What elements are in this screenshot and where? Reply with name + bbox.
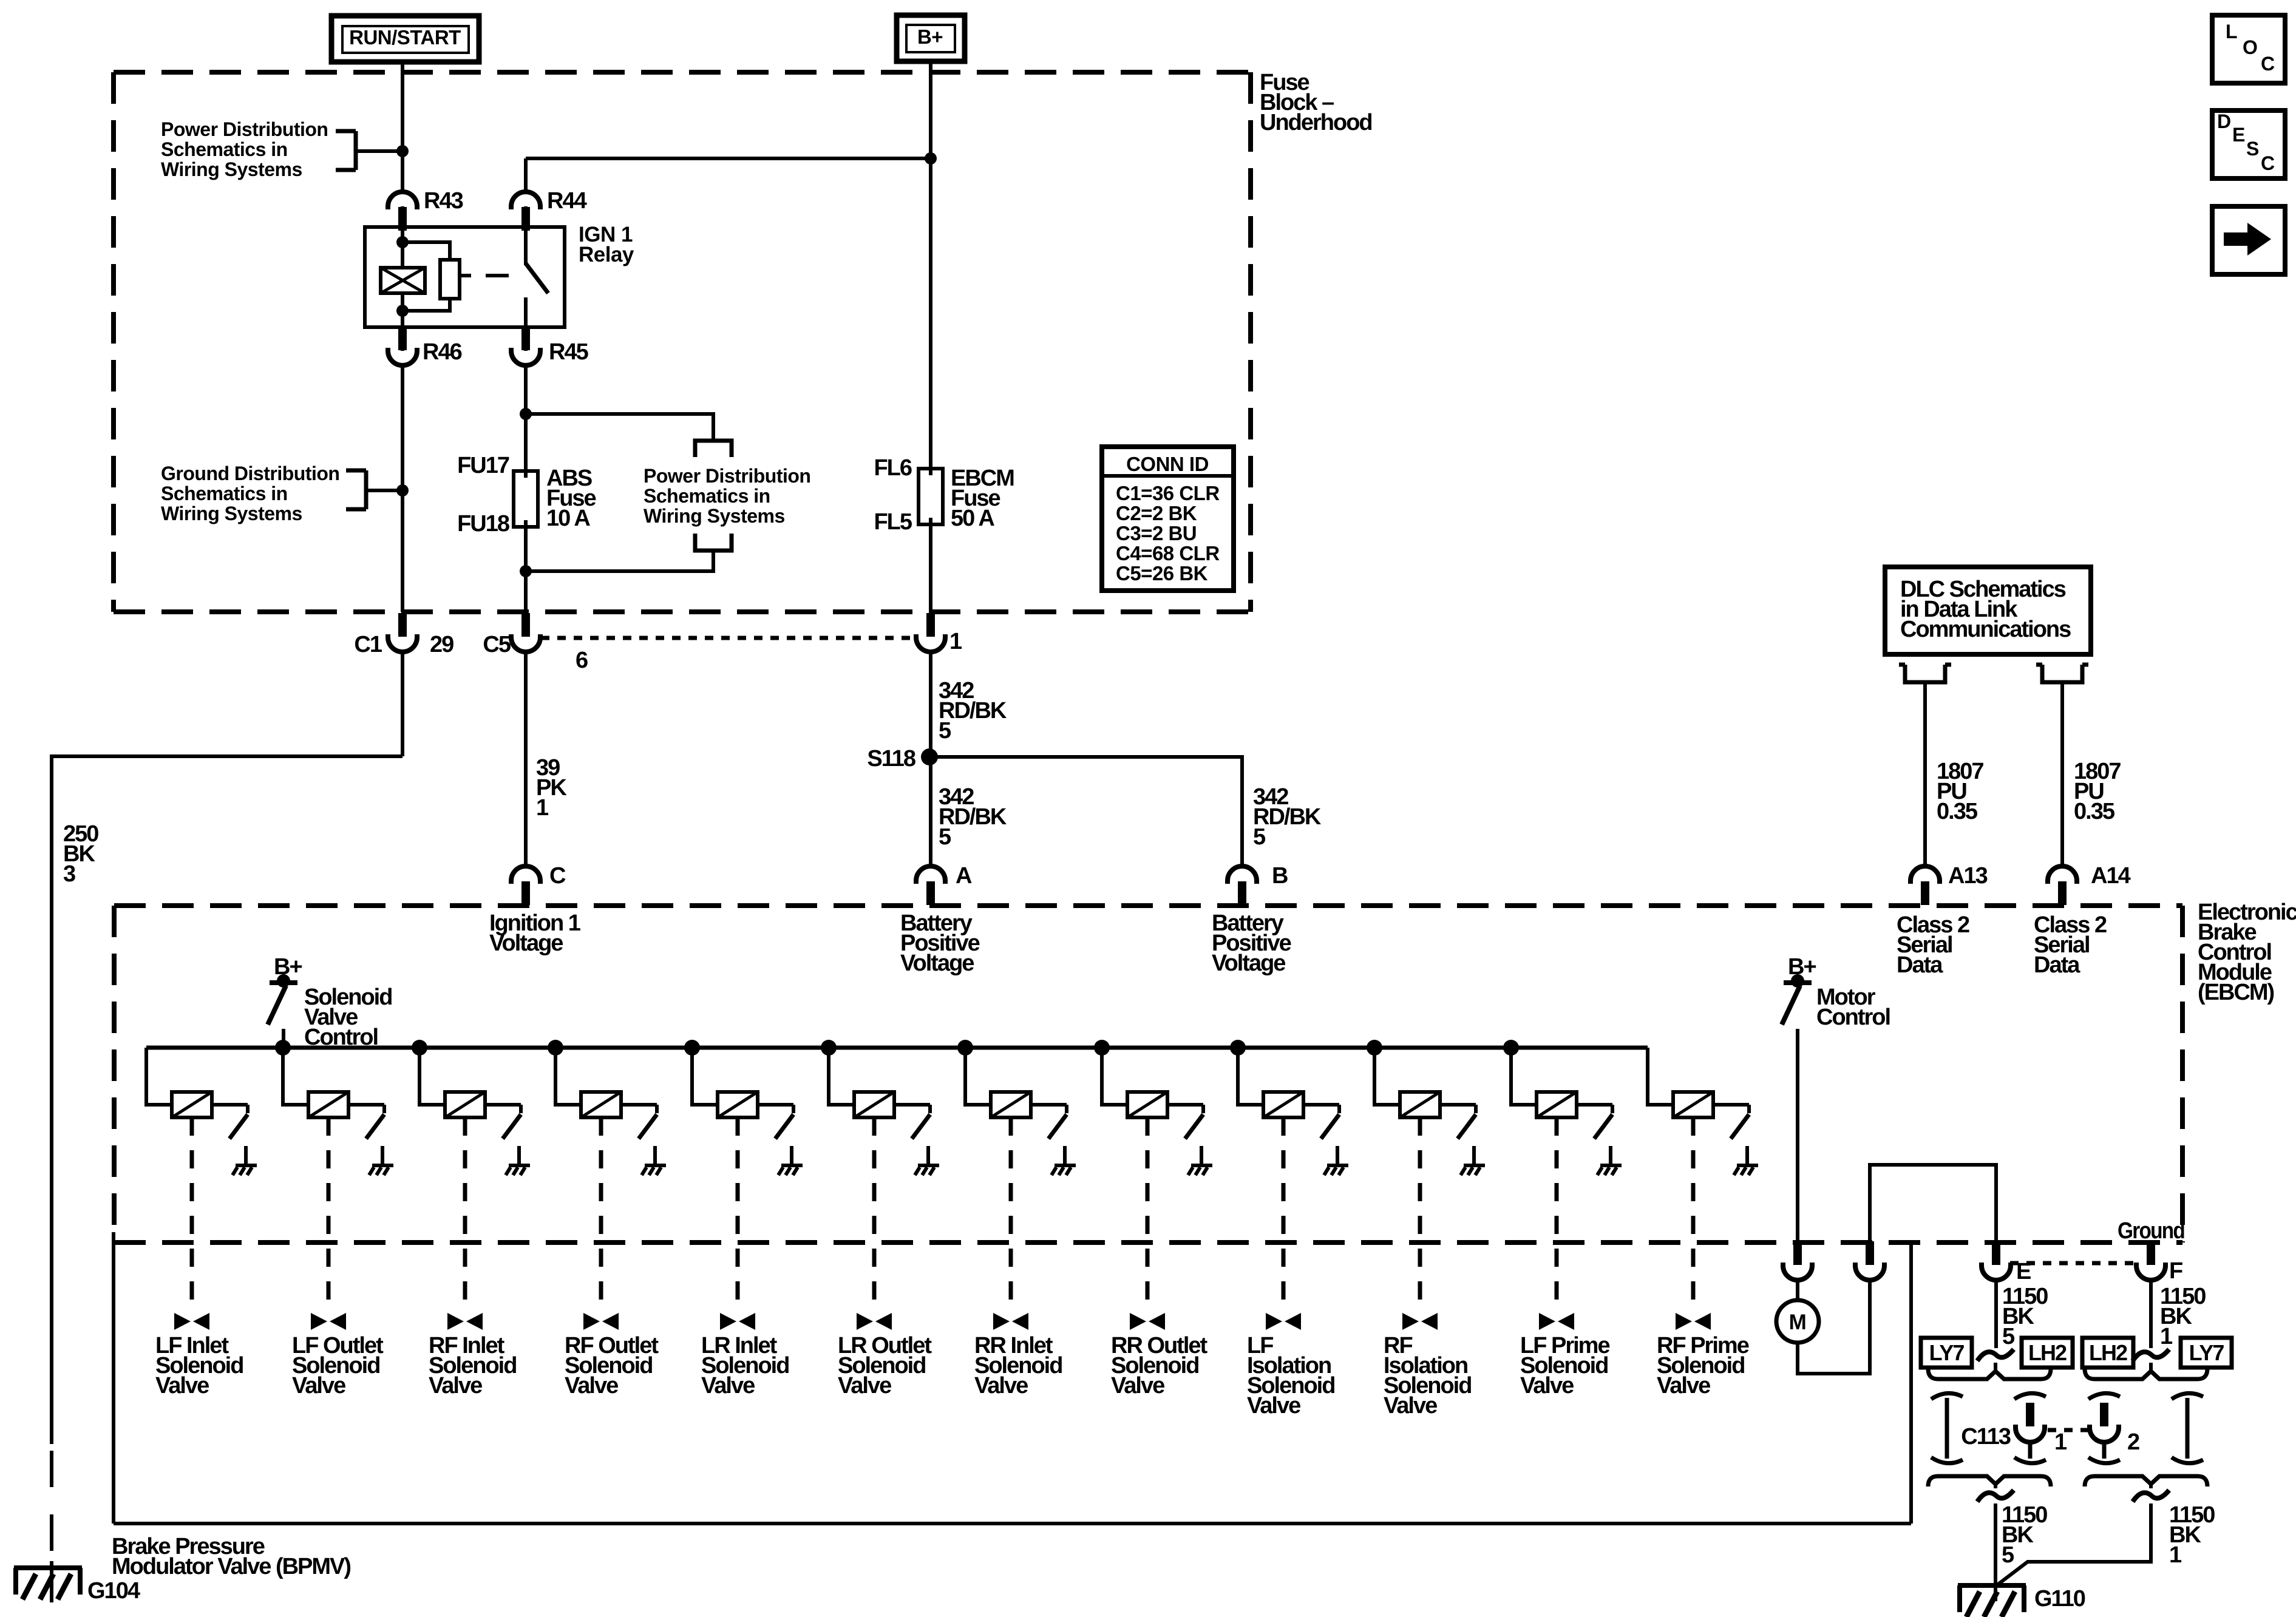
svg-text:RUN/START: RUN/START [349,26,461,49]
svg-text:R43: R43 [424,188,463,214]
svg-text:Ground Distribution: Ground Distribution [161,463,339,484]
svg-text:50 A: 50 A [951,506,994,531]
svg-text:C2=2 BK: C2=2 BK [1116,502,1197,524]
svg-text:Valve: Valve [292,1373,345,1398]
svg-text:C: C [2261,152,2275,174]
svg-text:Ground: Ground [2118,1218,2184,1244]
svg-text:Voltage: Voltage [1212,951,1285,976]
svg-text:Valve: Valve [155,1373,209,1398]
svg-text:Valve: Valve [838,1373,891,1398]
svg-text:Valve: Valve [974,1373,1028,1398]
svg-text:A14: A14 [2091,863,2131,889]
svg-text:Schematics in: Schematics in [161,483,288,504]
svg-text:C1: C1 [354,632,382,657]
svg-text:G104: G104 [87,1578,140,1604]
svg-text:Valve: Valve [1657,1373,1710,1398]
svg-text:C4=68 CLR: C4=68 CLR [1116,542,1220,564]
svg-text:A: A [956,863,972,889]
svg-text:L: L [2226,21,2237,42]
svg-text:R45: R45 [549,339,589,365]
svg-text:2: 2 [2127,1429,2139,1455]
svg-text:Wiring Systems: Wiring Systems [161,158,302,180]
svg-text:Data: Data [1897,952,1943,978]
svg-text:5: 5 [1253,824,1266,850]
svg-text:6: 6 [576,648,588,673]
svg-text:LY7: LY7 [1929,1340,1965,1365]
svg-text:C5=26 BK: C5=26 BK [1116,562,1208,585]
svg-text:5: 5 [939,718,951,744]
svg-text:Voltage: Voltage [489,931,563,956]
svg-text:C1=36 CLR: C1=36 CLR [1116,482,1220,504]
svg-text:Schematics in: Schematics in [644,485,770,507]
svg-text:M: M [1789,1310,1807,1334]
svg-text:Communications: Communications [1900,617,2071,642]
svg-text:Power Distribution: Power Distribution [161,118,328,140]
svg-text:5: 5 [939,824,951,850]
svg-text:O: O [2243,36,2257,58]
svg-text:Voltage: Voltage [900,951,974,976]
svg-text:5: 5 [2002,1324,2015,1349]
svg-text:Data: Data [2034,952,2080,978]
svg-text:FL6: FL6 [874,455,911,481]
svg-text:Valve: Valve [1520,1373,1574,1398]
svg-text:R44: R44 [547,188,587,214]
svg-text:Power Distribution: Power Distribution [644,465,810,487]
svg-text:C: C [549,863,566,889]
svg-text:Control: Control [1816,1005,1890,1030]
svg-text:3: 3 [63,861,75,887]
svg-text:(EBCM): (EBCM) [2198,980,2274,1005]
svg-text:E: E [2232,124,2245,146]
svg-text:C3=2 BU: C3=2 BU [1116,522,1197,544]
svg-text:CONN ID: CONN ID [1126,453,1209,475]
svg-text:S: S [2246,138,2259,160]
svg-text:D: D [2217,110,2231,132]
svg-text:Valve: Valve [1111,1373,1164,1398]
svg-text:Modulator Valve (BPMV): Modulator Valve (BPMV) [112,1554,350,1579]
svg-text:B+: B+ [1788,954,1816,980]
svg-text:C5: C5 [483,632,511,657]
svg-text:FU18: FU18 [457,511,509,537]
svg-text:F: F [2169,1258,2182,1284]
svg-text:C: C [2261,53,2275,75]
svg-text:Valve: Valve [1247,1393,1300,1419]
svg-text:Valve: Valve [429,1373,482,1398]
svg-text:5: 5 [2002,1542,2014,1568]
svg-text:1: 1 [2054,1429,2067,1455]
svg-text:C113: C113 [1961,1424,2011,1449]
svg-text:B+: B+ [917,25,943,48]
svg-text:FL5: FL5 [874,509,912,535]
svg-text:B+: B+ [274,954,302,980]
svg-text:0.35: 0.35 [1937,799,1978,824]
svg-text:Wiring Systems: Wiring Systems [161,503,302,524]
svg-text:Valve: Valve [1384,1393,1437,1419]
svg-text:0.35: 0.35 [2074,799,2115,824]
svg-text:R46: R46 [423,339,462,365]
svg-text:10 A: 10 A [546,506,590,531]
svg-text:FU17: FU17 [457,453,509,478]
svg-text:A13: A13 [1948,863,1988,889]
svg-text:G110: G110 [2034,1586,2085,1612]
svg-text:Valve: Valve [701,1373,755,1398]
svg-text:E: E [2016,1259,2031,1284]
svg-text:LY7: LY7 [2189,1340,2224,1365]
svg-text:1: 1 [2160,1324,2173,1349]
svg-text:Valve: Valve [565,1373,618,1398]
svg-text:B: B [1272,863,1288,889]
svg-text:29: 29 [430,632,453,657]
svg-text:LH2: LH2 [2028,1340,2067,1365]
svg-text:1: 1 [2169,1542,2182,1568]
svg-text:Underhood: Underhood [1260,110,1372,135]
svg-text:LH2: LH2 [2089,1340,2127,1365]
svg-text:Wiring Systems: Wiring Systems [644,505,785,527]
svg-text:1: 1 [949,629,962,654]
svg-text:1: 1 [536,795,549,821]
svg-text:S118: S118 [867,746,915,771]
svg-text:Relay: Relay [579,243,634,266]
svg-text:Schematics in: Schematics in [161,138,288,160]
